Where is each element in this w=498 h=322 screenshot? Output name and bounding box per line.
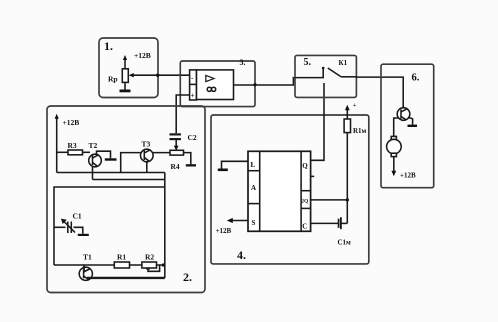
svg-text:3.: 3. xyxy=(240,58,246,67)
wire: row through T1 R1 R2 xyxy=(54,264,165,266)
wire: motor to +12V arrow xyxy=(393,157,395,172)
svg-text:Q: Q xyxy=(302,162,308,170)
wire: transistor to motor xyxy=(394,118,399,136)
svg-text:Rр: Rр xyxy=(108,75,118,84)
svg-text:T3: T3 xyxy=(142,140,151,149)
R2 wiper loop xyxy=(148,265,160,271)
potentiometer Rp body xyxy=(122,69,128,83)
svg-text:6.: 6. xyxy=(412,73,420,84)
svg-text:R1: R1 xyxy=(117,253,126,262)
resistor R1 xyxy=(114,262,129,268)
wire: R4 to ground bar xyxy=(184,153,191,165)
wire: pot wiper to op-amp inverting input xyxy=(131,74,190,76)
wire: T3 base from left with drop xyxy=(121,153,141,173)
svg-text:T1: T1 xyxy=(83,253,92,262)
wire: op-amp output to relay block 5 xyxy=(234,78,296,85)
svg-text:R1м: R1м xyxy=(353,127,367,135)
relay contact K1 xyxy=(295,69,323,78)
svg-text:+: + xyxy=(353,102,357,109)
svg-text:5.: 5. xyxy=(304,57,312,68)
resistor R4 xyxy=(170,150,184,155)
transistor T3 xyxy=(141,149,154,162)
wire: R1m down to junction and C1m xyxy=(346,133,348,224)
block 2 (oscillator unit) xyxy=(47,106,205,293)
block 1 (setpoint unit) xyxy=(99,38,158,98)
thick bottom wire of oscillator xyxy=(87,277,165,279)
capacitor C1m xyxy=(311,222,339,224)
svg-text:4.: 4. xyxy=(237,248,246,262)
potentiometer Rp supply wire with +12V arrow xyxy=(124,58,126,69)
inner oscillator box xyxy=(54,187,165,265)
block 4 (timer unit) xyxy=(211,115,369,264)
wire: line A horizontal xyxy=(57,172,165,174)
svg-text:+: + xyxy=(191,92,195,100)
transistor T1 xyxy=(79,267,92,280)
svg-text:C1: C1 xyxy=(73,212,82,221)
wire: IC Q pin to relay coil (up to block 5) xyxy=(311,83,324,160)
+12V rail with arrow in block 2 xyxy=(56,118,58,173)
svg-text:A: A xyxy=(251,184,256,192)
wire: IC 2Q pin to R1m line xyxy=(311,199,348,201)
op-amp U1 body with triangle and infinity xyxy=(197,70,234,100)
op-amp U1 input cells - and + xyxy=(190,70,197,100)
svg-text:2Q: 2Q xyxy=(301,199,309,205)
wire: line B horizontal xyxy=(93,179,165,181)
potentiometer Rp ground xyxy=(124,83,126,90)
resistor R3 xyxy=(68,150,83,155)
wire: T3 to R4 xyxy=(153,152,170,154)
wire: relay contact to block 6 xyxy=(356,77,403,108)
block 6 (motor unit) xyxy=(381,64,434,188)
wire: op-amp noninverting input down to C2 xyxy=(176,95,189,133)
resistor R2 (trimmer) xyxy=(142,262,157,268)
svg-text:T2: T2 xyxy=(89,141,98,150)
svg-text:2.: 2. xyxy=(183,270,192,284)
block 5 (relay unit) xyxy=(295,55,356,97)
svg-text:+12В: +12В xyxy=(400,172,416,180)
svg-text:+12В: +12В xyxy=(63,118,80,127)
wire: rail to R3 xyxy=(57,151,68,153)
svg-text:R2: R2 xyxy=(145,253,154,262)
wire: T2 emitter down xyxy=(92,166,94,179)
resistor R1m with supply arrow xyxy=(346,108,348,119)
svg-text:Ł: Ł xyxy=(251,161,256,169)
wire: T3 emitter down xyxy=(146,162,148,173)
IC stub pin xyxy=(311,175,315,177)
svg-text:S: S xyxy=(252,219,256,227)
trimmer capacitor C1 xyxy=(54,226,66,228)
block 3 (comparator unit) xyxy=(180,61,255,107)
svg-text:R4: R4 xyxy=(171,162,180,171)
ground at IC top-left pin xyxy=(222,161,249,168)
transistor in block 6 xyxy=(397,108,410,121)
transistor T2 xyxy=(89,154,102,167)
svg-text:1.: 1. xyxy=(104,39,113,53)
svg-text:+12В: +12В xyxy=(216,227,232,235)
wire: R3 to T2 xyxy=(83,151,91,153)
svg-text:R3: R3 xyxy=(68,141,77,150)
svg-text:C2: C2 xyxy=(188,133,197,142)
IC U2 outer box xyxy=(248,151,311,231)
svg-text:+12В: +12В xyxy=(134,51,151,60)
capacitor C2 xyxy=(170,133,181,135)
svg-text:К1: К1 xyxy=(339,59,348,67)
wire: C2 down to R4 junction with arrow xyxy=(175,140,177,148)
motor M with brushes xyxy=(391,136,396,140)
+12V arrow at IC S pin xyxy=(229,220,248,222)
svg-text:С1м: С1м xyxy=(338,239,352,247)
wire: T2 collector to ground bar xyxy=(97,151,111,158)
svg-text:C: C xyxy=(302,223,307,231)
